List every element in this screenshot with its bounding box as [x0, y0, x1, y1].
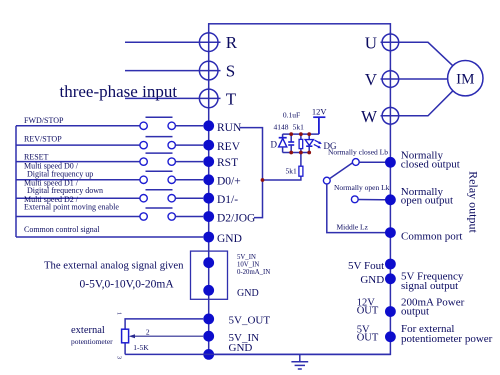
label 5V Frequency signal output [401, 270, 464, 292]
wire pot top to 5V_OUT [125, 319, 203, 329]
pin label 12V OUT [357, 298, 379, 317]
svg-text:External point moving enable: External point moving enable [24, 203, 119, 212]
svg-text:R: R [226, 33, 238, 52]
svg-text:RUN: RUN [217, 122, 242, 134]
switch multi speed D2 [16, 208, 203, 220]
svg-text:The external analog signal giv: The external analog signal given [44, 259, 184, 271]
node top rail resistor [299, 132, 303, 136]
terminal 5V OUT [385, 331, 396, 342]
svg-text:D1/-: D1/- [217, 194, 238, 206]
wire W to motor [381, 91, 453, 116]
svg-text:5V_IN: 5V_IN [237, 254, 256, 261]
potentiometer 1-5K [122, 329, 129, 343]
svg-text:REV: REV [217, 141, 241, 153]
wire RUN to internal circuit [240, 128, 263, 218]
terminal 5V_OUT [203, 314, 214, 325]
switch multi speed D1 [16, 190, 203, 202]
svg-text:0-20mA_IN: 0-20mA_IN [237, 269, 270, 276]
label external potentiometer [71, 325, 113, 346]
ground [291, 354, 308, 369]
terminal D1 [203, 193, 214, 204]
switch multi speed D0 [16, 171, 203, 183]
node bottom rail LED [307, 151, 311, 155]
terminal analog GND [203, 285, 214, 296]
svg-text:D0/+: D0/+ [217, 176, 241, 188]
terminal V [382, 69, 399, 90]
terminal 12V OUT [385, 306, 396, 317]
svg-text:D: D [271, 140, 278, 150]
svg-text:Normally closed Lb: Normally closed Lb [328, 147, 388, 156]
power 12V [312, 106, 328, 134]
svg-text:Common control signal: Common control signal [24, 225, 100, 234]
pin label 5V_IN 10V_IN 0-20mA_IN [237, 254, 270, 276]
switch RESET [16, 153, 203, 165]
svg-text:IM: IM [456, 72, 474, 88]
svg-text:12V: 12V [312, 106, 328, 116]
svg-text:Common port: Common port [401, 231, 462, 243]
terminal RUN [203, 120, 214, 131]
terminal U [382, 32, 399, 53]
wire pot bottom to GND [124, 343, 126, 355]
svg-text:FWD/STOP: FWD/STOP [24, 116, 64, 125]
svg-text:Middle Lz: Middle Lz [337, 223, 369, 232]
LED DG [305, 134, 322, 152]
svg-text:V: V [365, 70, 378, 89]
svg-text:three-phase input: three-phase input [60, 82, 178, 101]
terminal W [382, 106, 399, 127]
svg-text:open output: open output [401, 194, 453, 206]
terminal GND bottom [203, 349, 214, 360]
switch FWD/STOP [16, 117, 203, 129]
label Normally closed output [401, 150, 460, 171]
wire junction to 5k1 resistor [263, 176, 301, 180]
svg-text:OUT: OUT [357, 306, 379, 317]
svg-text:signal output: signal output [401, 280, 458, 292]
terminal T [199, 87, 218, 110]
svg-text:Digital frequency down: Digital frequency down [27, 186, 103, 195]
svg-text:external: external [71, 325, 105, 336]
svg-text:output: output [401, 306, 429, 318]
svg-text:T: T [226, 89, 237, 108]
svg-text:4148: 4148 [274, 122, 289, 131]
capacitor 0.1uF [288, 134, 294, 152]
terminal 5V Fout [385, 259, 396, 270]
svg-text:GND: GND [229, 342, 253, 354]
terminal analog input [203, 257, 214, 268]
svg-text:U: U [365, 33, 377, 52]
wire common control signal [16, 236, 203, 238]
wire bottom GND line [125, 353, 390, 355]
terminal Lk [385, 194, 396, 205]
pin label 5V OUT [357, 325, 379, 344]
node top rail capacitor [289, 132, 293, 136]
svg-text:0.1uF: 0.1uF [283, 110, 300, 119]
terminal R [199, 31, 218, 54]
terminal 5V_IN [203, 331, 214, 342]
svg-text:OUT: OUT [357, 333, 379, 344]
svg-text:0-5V,0-10V,0-20mA: 0-5V,0-10V,0-20mA [80, 278, 175, 290]
wire bottom rail [283, 152, 310, 154]
node bottom rail capacitor [289, 151, 293, 155]
svg-text:GND: GND [237, 288, 259, 299]
svg-text:Digital frequency up: Digital frequency up [27, 169, 93, 178]
terminal GND right [385, 273, 396, 284]
svg-text:5k1: 5k1 [286, 166, 298, 175]
resistor 5k1 top [299, 134, 303, 152]
svg-text:W: W [361, 107, 378, 126]
svg-text:GND: GND [217, 233, 242, 245]
node top rail LED [307, 132, 311, 136]
wire pot wiper to 5V_IN [129, 334, 203, 338]
relay contact Lb [352, 159, 390, 166]
svg-text:potentiometer: potentiometer [71, 337, 113, 346]
wire U to motor [381, 42, 453, 66]
svg-text:1-5K: 1-5K [133, 343, 149, 352]
svg-text:5V Fout: 5V Fout [348, 260, 384, 272]
svg-text:RESET: RESET [24, 153, 49, 162]
svg-text:1: 1 [116, 312, 122, 315]
diode D 4148 [279, 134, 287, 152]
svg-text:3: 3 [116, 356, 122, 359]
svg-text:potentiometer power: potentiometer power [401, 333, 493, 345]
terminal REV [203, 140, 214, 151]
svg-text:D2/JOG: D2/JOG [217, 213, 255, 225]
terminal D0 [203, 174, 214, 185]
wire top rail [283, 133, 319, 135]
label 200mA Power output [401, 297, 465, 318]
resistor 5k1 bottom [299, 153, 303, 177]
wire phase R [125, 41, 221, 43]
terminal GND left [203, 232, 214, 243]
node junction RUN line [261, 178, 265, 182]
label Normally open output [401, 186, 453, 207]
common control bus [15, 126, 17, 237]
svg-text:RST: RST [217, 157, 238, 169]
wire V to motor [381, 78, 448, 80]
terminal Lb [385, 157, 396, 168]
wire relay common to Lz [327, 184, 391, 233]
svg-text:REV/STOP: REV/STOP [24, 134, 62, 143]
svg-text:GND: GND [360, 274, 384, 286]
svg-text:10V_IN: 10V_IN [237, 261, 259, 268]
terminal Lz common [385, 227, 396, 238]
motor IM [448, 60, 483, 95]
terminal RST [203, 156, 214, 167]
svg-text:2: 2 [146, 328, 150, 337]
svg-text:Normally open Lk: Normally open Lk [334, 183, 390, 192]
switch REV/STOP [16, 137, 203, 149]
relay contact Lk [351, 196, 390, 203]
wire phase S [125, 70, 221, 72]
VFD main unit box [209, 24, 391, 355]
relay common arm [323, 163, 352, 184]
svg-text:5V_OUT: 5V_OUT [229, 314, 271, 326]
label For external potentiometer power [401, 323, 493, 345]
svg-text:S: S [226, 62, 235, 81]
svg-text:Relay output: Relay output [467, 171, 481, 233]
analog input box [191, 251, 228, 299]
svg-text:closed output: closed output [401, 158, 460, 170]
wire phase T [125, 97, 221, 99]
terminal S [199, 59, 218, 82]
node bottom rail resistor [299, 151, 303, 155]
terminal D2 [203, 211, 214, 222]
svg-text:5k1: 5k1 [293, 122, 305, 131]
